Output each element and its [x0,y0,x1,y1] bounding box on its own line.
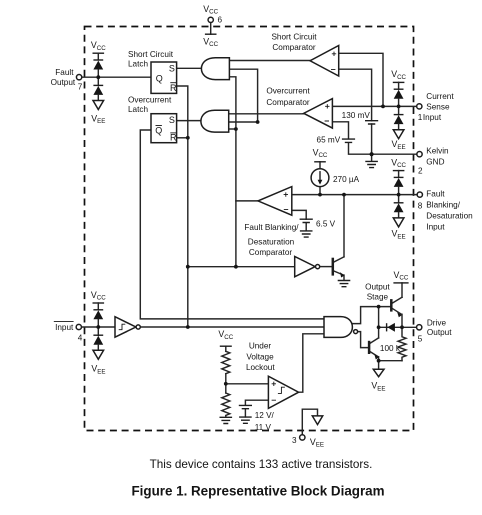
svg-text:Output: Output [51,78,76,87]
svg-text:VEE: VEE [91,113,105,125]
svg-text:270 µA: 270 µA [333,175,360,184]
svg-text:Short Circuit: Short Circuit [128,50,174,59]
svg-text:This device contains 133 activ: This device contains 133 active transist… [150,458,373,471]
svg-text:11 V: 11 V [255,423,272,432]
svg-text:Q: Q [156,74,163,84]
svg-text:VCC: VCC [393,270,408,282]
svg-text:Latch: Latch [128,105,148,114]
svg-text:Fault: Fault [426,189,445,198]
svg-text:Figure 1. Representative Block: Figure 1. Representative Block Diagram [131,483,384,498]
svg-text:Drive: Drive [427,318,447,327]
svg-text:Overcurrent: Overcurrent [128,95,172,104]
svg-text:Comparator: Comparator [272,43,316,52]
svg-text:Output: Output [365,282,390,291]
svg-text:5: 5 [418,335,423,344]
svg-text:R: R [170,133,177,143]
svg-text:Q: Q [155,125,162,135]
svg-text:12 V/: 12 V/ [255,411,275,420]
svg-text:Blanking/: Blanking/ [426,201,460,210]
svg-text:GND: GND [426,158,444,167]
svg-text:VCC: VCC [203,4,218,16]
svg-text:8: 8 [418,201,423,210]
svg-text:Comparator: Comparator [249,248,293,257]
svg-text:Input: Input [55,323,74,332]
svg-text:Stage: Stage [367,292,389,301]
svg-text:VCC: VCC [203,36,218,48]
svg-text:Kelvin: Kelvin [426,146,449,155]
svg-text:65 mV: 65 mV [317,135,341,144]
svg-text:Latch: Latch [128,60,148,69]
svg-text:Desaturation: Desaturation [248,238,295,247]
svg-text:VEE: VEE [310,437,324,449]
svg-text:Current: Current [426,92,454,101]
svg-text:VEE: VEE [392,229,406,241]
svg-text:6.5 V: 6.5 V [316,219,336,228]
svg-text:S: S [169,63,175,73]
svg-text:VCC: VCC [313,147,328,159]
svg-text:130 mV: 130 mV [342,111,371,120]
svg-text:Fault: Fault [55,68,74,77]
svg-text:Comparator: Comparator [266,98,310,107]
svg-text:6: 6 [218,15,223,24]
svg-text:Input: Input [423,113,442,122]
svg-text:VEE: VEE [91,364,105,376]
svg-text:R: R [170,83,177,93]
svg-text:7: 7 [78,82,83,91]
svg-text:VCC: VCC [218,329,233,341]
svg-text:Short Circuit: Short Circuit [271,32,317,41]
svg-text:2: 2 [418,167,423,176]
svg-text:100 k: 100 k [380,344,401,353]
svg-text:4: 4 [78,334,83,343]
svg-text:Output: Output [427,328,452,337]
svg-text:Under: Under [249,342,272,351]
svg-text:Desaturation: Desaturation [426,211,473,220]
svg-text:Voltage: Voltage [246,353,274,362]
svg-text:3: 3 [292,436,297,445]
svg-text:Overcurrent: Overcurrent [266,86,310,95]
svg-text:VEE: VEE [371,381,385,393]
svg-text:Sense: Sense [426,103,450,112]
svg-text:S: S [169,115,175,125]
svg-text:Fault Blanking/: Fault Blanking/ [244,223,299,232]
svg-text:VEE: VEE [392,139,406,151]
svg-text:Lockout: Lockout [246,363,275,372]
svg-text:Input: Input [426,222,445,231]
